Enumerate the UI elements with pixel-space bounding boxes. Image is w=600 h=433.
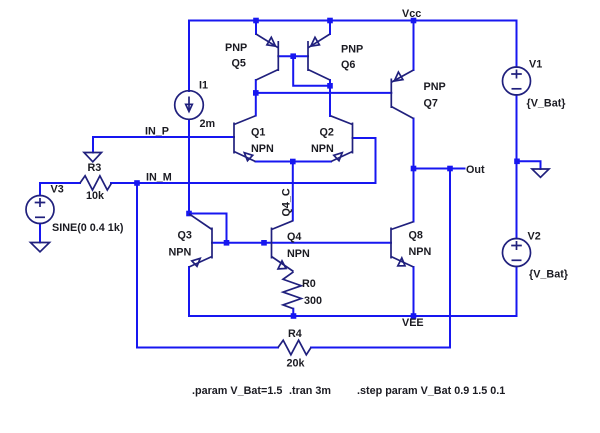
junction Q3 collector node bbox=[186, 211, 192, 217]
current source I1 bbox=[175, 91, 204, 120]
svg-text:Q7: Q7 bbox=[424, 98, 438, 110]
wire Q6 collector to Q2 collector bbox=[329, 80, 331, 116]
transistor Q6 bbox=[308, 34, 330, 80]
wire feedback up to IN_M bbox=[136, 183, 138, 348]
wire Q7 emitter to Vcc bbox=[413, 21, 415, 71]
junction V1 minus node bbox=[514, 159, 520, 165]
wire V3 top lead to R3 bbox=[40, 183, 80, 196]
voltage source V1 bbox=[503, 67, 531, 95]
junction common emitter node bbox=[290, 159, 296, 165]
svg-text:V2: V2 bbox=[528, 231, 541, 243]
ground below V3 bbox=[31, 243, 50, 252]
svg-text:PNP: PNP bbox=[341, 44, 363, 56]
wire R4 right lead bbox=[311, 347, 450, 349]
wire Q5-Q6 base tie bbox=[278, 55, 308, 57]
voltage source V2 bbox=[503, 239, 531, 267]
svg-text:Q5: Q5 bbox=[232, 58, 246, 70]
svg-text:Vcc: Vcc bbox=[402, 8, 421, 20]
wire V2 bottom to VEE bbox=[516, 267, 518, 317]
transistor Q7 bbox=[391, 70, 413, 119]
svg-text:Q4_C: Q4_C bbox=[281, 188, 293, 216]
svg-text:300: 300 bbox=[304, 295, 322, 307]
transistor Q1 bbox=[234, 116, 256, 162]
transistor Q4 bbox=[272, 221, 294, 272]
wire R4 left to feedback bbox=[137, 347, 278, 349]
junction Vcc / Q7 emitter bbox=[411, 18, 417, 24]
junction base tie node bbox=[290, 53, 296, 59]
resistor R3 bbox=[80, 176, 112, 190]
svg-text:.param V_Bat=1.5: .param V_Bat=1.5 bbox=[192, 385, 282, 397]
transistor Q2 bbox=[331, 116, 353, 162]
wire Q3 collector-base tie bbox=[189, 214, 227, 243]
svg-text:NPN: NPN bbox=[169, 247, 192, 259]
svg-text:Out: Out bbox=[466, 164, 485, 176]
wire base rail Q3-Q4-Q8 bbox=[212, 242, 391, 244]
svg-text:.tran 3m: .tran 3m bbox=[289, 385, 331, 397]
junction Q4 base node bbox=[261, 240, 267, 246]
junction Vcc / Q5 emitter bbox=[253, 18, 259, 24]
wire Q5 collector to Q1 collector bbox=[255, 80, 257, 116]
wire IN_P ground stub bbox=[92, 137, 94, 153]
junction mirror output node bbox=[253, 90, 259, 96]
resistor R4 bbox=[278, 340, 311, 355]
wire V3 bottom lead bbox=[39, 224, 41, 243]
wire V1 top lead bbox=[516, 21, 518, 68]
svg-text:R3: R3 bbox=[88, 162, 102, 174]
wire Q4_C vertical bbox=[292, 162, 294, 221]
wire I1 top lead bbox=[188, 21, 190, 92]
wire Out down to R4 bbox=[449, 169, 451, 348]
wire IN_P run bbox=[93, 136, 234, 138]
svg-text:Q1: Q1 bbox=[251, 127, 265, 139]
svg-text:10k: 10k bbox=[86, 190, 105, 202]
svg-text:R4: R4 bbox=[288, 328, 302, 340]
junction Out feedback tap bbox=[447, 166, 453, 172]
junction Q3 base tie bbox=[224, 240, 230, 246]
svg-text:Q3: Q3 bbox=[178, 230, 192, 242]
svg-text:SINE(0 0.4 1k): SINE(0 0.4 1k) bbox=[52, 222, 124, 234]
wire IN_M run bbox=[111, 182, 376, 184]
svg-text:I1: I1 bbox=[199, 80, 208, 92]
junction Out at Q7-Q8 collectors bbox=[411, 166, 417, 172]
wire base tie down to Q6 collector bbox=[293, 56, 330, 86]
svg-text:R0: R0 bbox=[302, 278, 316, 290]
svg-text:{V_Bat}: {V_Bat} bbox=[527, 98, 567, 110]
junction R0 at VEE bbox=[291, 313, 297, 319]
svg-text:Q6: Q6 bbox=[341, 59, 355, 71]
wire VEE rail bbox=[189, 315, 517, 317]
svg-text:PNP: PNP bbox=[424, 81, 446, 93]
wire ground stub at V1-V2 node bbox=[517, 161, 541, 169]
wire Q7 collector to Out to Q8 collector bbox=[413, 119, 415, 222]
wire mirror output to Q7 base bbox=[256, 92, 391, 94]
svg-text:IN_M: IN_M bbox=[146, 172, 172, 184]
svg-text:2m: 2m bbox=[200, 118, 216, 130]
wire V1 to V2 bbox=[516, 161, 518, 238]
svg-text:NPN: NPN bbox=[251, 143, 274, 155]
wire Out node stub bbox=[414, 168, 465, 170]
svg-text:NPN: NPN bbox=[287, 248, 310, 260]
svg-text:VEE: VEE bbox=[402, 317, 424, 329]
svg-text:V1: V1 bbox=[529, 59, 542, 71]
wire Q8 emitter to VEE bbox=[413, 267, 415, 316]
wire R0 bottom lead bbox=[292, 309, 294, 316]
svg-text:Q4: Q4 bbox=[287, 231, 301, 243]
wire Vcc top rail bbox=[189, 20, 517, 22]
svg-text:.step param V_Bat 0.9 1.5 0.1: .step param V_Bat 0.9 1.5 0.1 bbox=[357, 385, 505, 397]
wire Q3 emitter to VEE bbox=[188, 267, 190, 316]
wire V1 bottom lead bbox=[516, 95, 518, 161]
svg-text:NPN: NPN bbox=[311, 143, 334, 155]
voltage source V3 bbox=[26, 196, 54, 224]
ground at IN_P bbox=[84, 153, 102, 162]
svg-text:IN_P: IN_P bbox=[145, 126, 169, 138]
junction Vcc / Q6 emitter bbox=[327, 18, 333, 24]
svg-text:20k: 20k bbox=[287, 358, 306, 370]
resistor R0 bbox=[283, 272, 301, 309]
wire common emitters Q1-Q2 bbox=[256, 161, 332, 163]
transistor Q3 bbox=[189, 214, 212, 267]
junction Q8 emitter at VEE bbox=[411, 313, 417, 319]
junction IN_M node bbox=[134, 180, 140, 186]
svg-text:{V_Bat}: {V_Bat} bbox=[529, 269, 569, 281]
transistor Q5 bbox=[256, 34, 278, 80]
wire IN_M up to Q2 base bbox=[353, 138, 376, 183]
svg-text:Q2: Q2 bbox=[320, 127, 334, 139]
wire Q6 emitter to Vcc bbox=[329, 21, 331, 35]
transistor Q8 bbox=[391, 222, 414, 267]
svg-text:PNP: PNP bbox=[225, 42, 247, 54]
wire Q5 emitter to Vcc bbox=[255, 21, 257, 35]
junction Q6 collector cross tie bbox=[327, 83, 333, 89]
wire I1 bottom to Q3 collector node bbox=[188, 120, 190, 214]
svg-text:Q8: Q8 bbox=[409, 230, 423, 242]
svg-text:NPN: NPN bbox=[409, 246, 432, 258]
svg-text:V3: V3 bbox=[51, 184, 64, 196]
ground at V1-V2 midpoint bbox=[532, 169, 549, 177]
